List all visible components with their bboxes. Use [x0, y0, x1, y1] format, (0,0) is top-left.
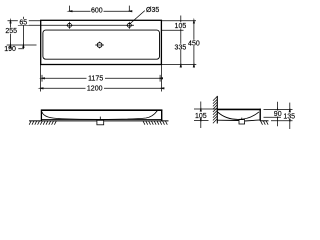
front view trap [97, 117, 104, 125]
svg-text:Ø35: Ø35 [146, 7, 159, 14]
side view bowl curve [218, 112, 259, 120]
dimension 105-335 line [180, 16, 182, 65]
faucet holes centerline [18, 24, 134, 26]
side view wall hatch [213, 96, 217, 123]
left extension line drain [7, 44, 37, 46]
side view bottom front segment [245, 120, 261, 121]
dimension 105 label [173, 22, 189, 30]
dimension 135 label [282, 113, 298, 121]
dimension 450 label [186, 40, 202, 48]
dimension 105 line [200, 102, 202, 129]
svg-text:255: 255 [5, 28, 17, 35]
dimension 600 label [91, 7, 104, 15]
svg-text:600: 600 [91, 8, 103, 15]
side view ground hatch [261, 121, 269, 125]
dimension 135 line [289, 103, 291, 129]
side view top edge [217, 108, 261, 110]
front view left edge [40, 110, 42, 121]
plan view outer rim [41, 20, 162, 64]
right extension line inner top [161, 29, 183, 31]
dimension 190 leader [18, 45, 23, 48]
dimension 1200 line [41, 87, 162, 89]
dimension 105 extension lines [194, 109, 217, 121]
front view right edge [161, 110, 163, 121]
side view trap [239, 118, 245, 124]
faucet hole left [66, 22, 73, 29]
front view underside curve [42, 111, 157, 120]
dimension 1200 label [86, 85, 105, 93]
dimension 255 label [4, 28, 20, 36]
svg-text:105: 105 [195, 113, 207, 120]
dimension 190 label [4, 46, 16, 53]
dimension 1175 label [87, 75, 106, 83]
dimension 135 extension line bottom [271, 120, 293, 122]
plan view inner basin [43, 30, 160, 59]
svg-text:90: 90 [274, 111, 282, 118]
svg-text:450: 450 [188, 40, 200, 47]
right extension line bottom edge [161, 64, 196, 66]
right extension line top edge [161, 20, 196, 22]
ground hatch left [29, 121, 56, 125]
bottom extension line left [40, 65, 42, 92]
dimension 1175 ticks [42, 75, 160, 82]
front view bottom edge [41, 118, 162, 120]
ground hatch right [143, 121, 167, 125]
dimension 600 extension ticks [70, 6, 130, 12]
side view ground line [260, 120, 268, 122]
side view bottom rear segment [217, 119, 239, 121]
svg-text:1200: 1200 [87, 86, 103, 93]
svg-text:335: 335 [175, 44, 187, 51]
ground line [29, 120, 169, 122]
svg-text:190: 190 [4, 46, 16, 53]
dimension 450 line [193, 21, 195, 65]
dimension 1175 line [42, 77, 160, 79]
svg-text:1175: 1175 [88, 76, 103, 83]
drain hole [95, 42, 104, 49]
bottom extension line right [160, 65, 162, 92]
svg-text:65: 65 [19, 20, 27, 27]
dimension 90 line [277, 102, 279, 126]
dimension 90 label [272, 110, 283, 118]
dimension 600 line [70, 10, 130, 12]
left extension line top edge [8, 20, 41, 22]
dimension 335 label [173, 44, 189, 52]
dimension 255 line [10, 21, 12, 45]
front view top edge [41, 109, 162, 111]
svg-text:135: 135 [283, 114, 295, 121]
diameter 35 label [146, 7, 159, 14]
dimension 105 side label [194, 112, 209, 120]
side view wall line [216, 96, 218, 124]
dimension 90 extension lines [264, 109, 293, 117]
svg-text:105: 105 [175, 23, 187, 30]
side view front edge [259, 109, 261, 121]
dimension 65 label [18, 19, 29, 27]
faucet hole right [126, 22, 133, 29]
dimension 65-190 line [22, 17, 24, 45]
diameter 35 leader [130, 11, 145, 24]
